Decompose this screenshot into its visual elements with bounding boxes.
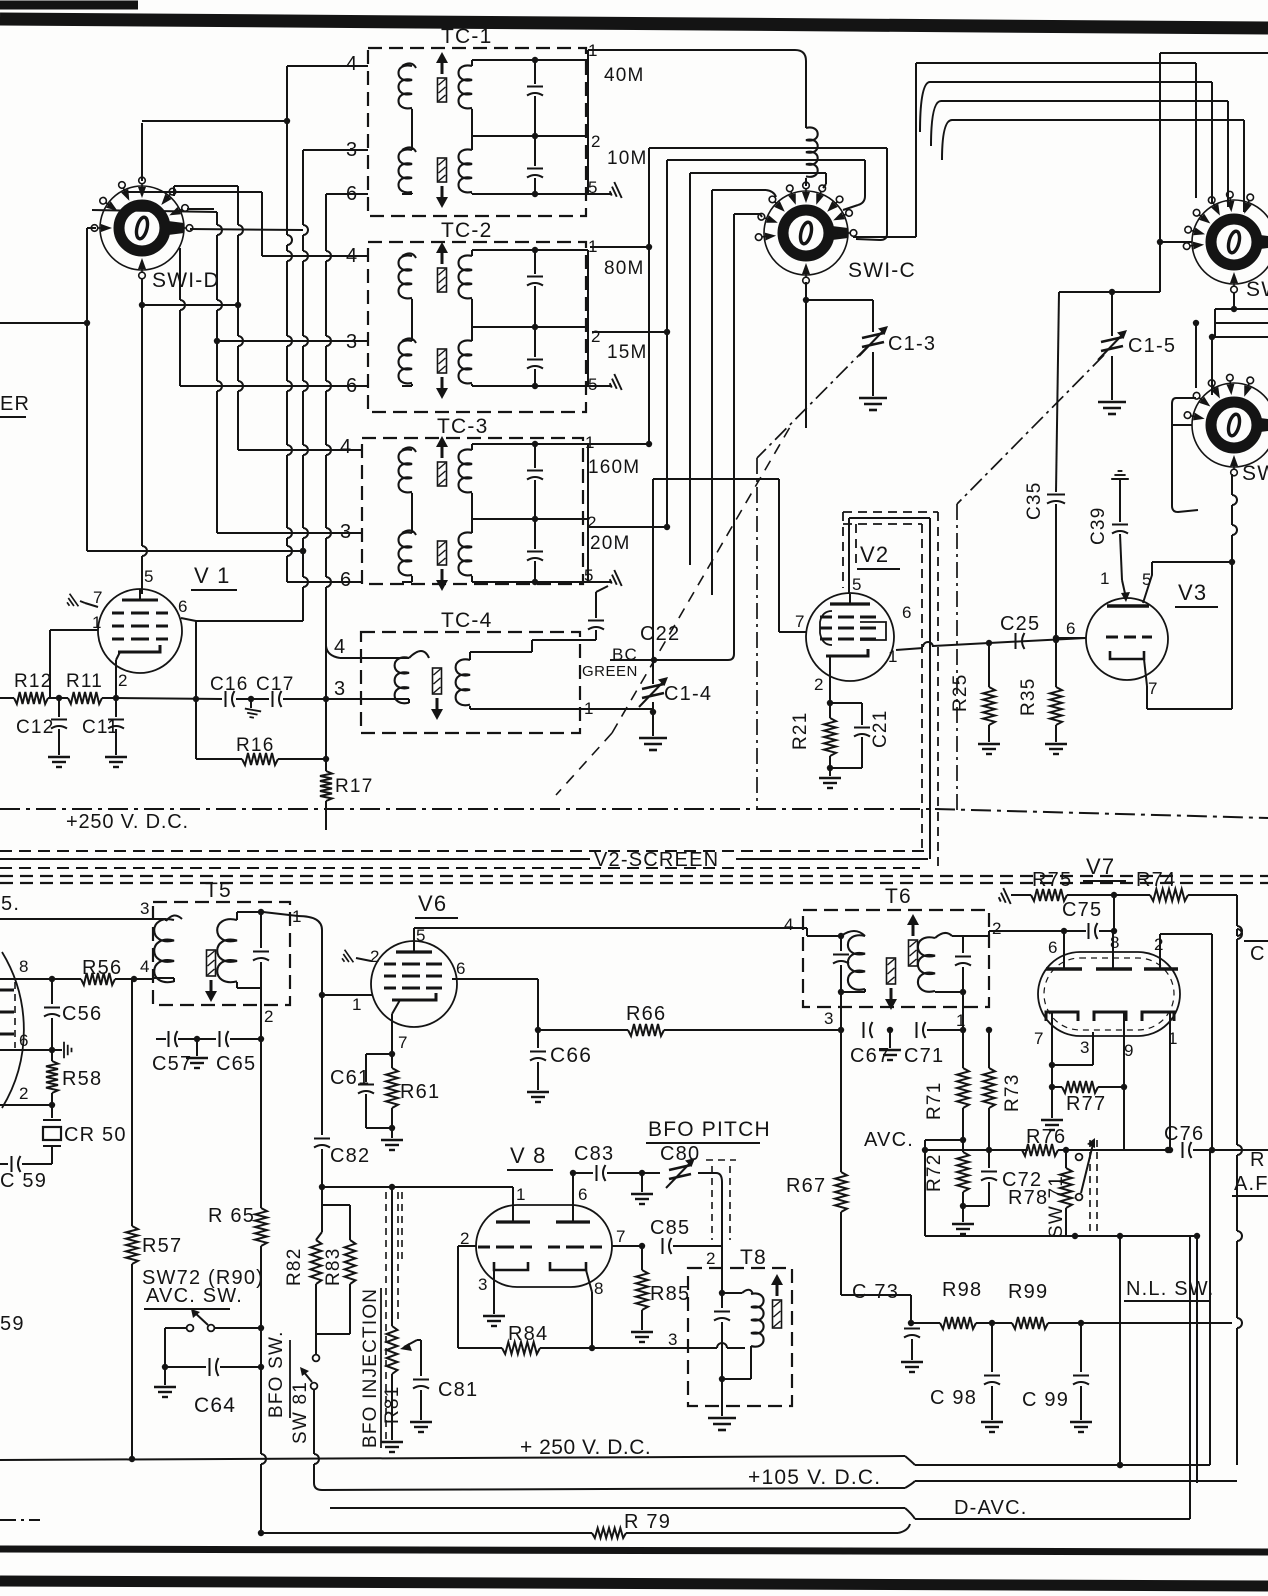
svg-text:V6: V6 (418, 891, 447, 916)
wire R75/R74 node down to C75 node (1113, 895, 1115, 931)
V1 plate (122, 599, 158, 602)
svg-text:8: 8 (594, 1279, 605, 1298)
resistor R71 (962, 1030, 964, 1068)
svg-text:3: 3 (140, 899, 151, 918)
tank pin5 ground (588, 581, 612, 583)
TC-3 pin 3 wire (217, 532, 362, 534)
T6 left coil (841, 931, 865, 936)
tank cap lower (534, 136, 536, 166)
svg-text:TC-3: TC-3 (437, 415, 488, 438)
resistor R75 row with ground (996, 888, 1011, 907)
capacitor C66 (537, 1030, 539, 1048)
wire SW1-D left terminal to x=87 (87, 227, 96, 229)
capacitor C81 (417, 1339, 421, 1341)
C1-5 ground (1098, 402, 1126, 414)
gang dashed line below TC-4 (556, 733, 612, 795)
wire V7 pin2 over to x=1212 (1160, 933, 1212, 935)
capacitor C71 (916, 1022, 918, 1038)
svg-text:9: 9 (1124, 1041, 1135, 1060)
wire x=1232 lower (1231, 562, 1233, 709)
wire T5 pin1 vertical x=322 (321, 930, 323, 1135)
wire R74 right down x=1237 (1236, 895, 1238, 926)
svg-text:2: 2 (992, 919, 1003, 938)
svg-text:+ 250 V. D.C.: + 250 V. D.C. (520, 1436, 651, 1459)
resistor R76 (1022, 1144, 1058, 1156)
wire TC-2 pin6 x=180 riser (179, 248, 181, 300)
V6 plate (396, 950, 432, 953)
wire sw1b left terminal (1160, 241, 1192, 243)
C99 ground (1070, 1422, 1092, 1432)
svg-text:40M: 40M (604, 65, 645, 86)
SW1-C harness row y=173 (690, 172, 826, 174)
svg-text:R11: R11 (66, 671, 103, 692)
V1 pin 7 lead and ground (85, 603, 98, 607)
TC-3 pin 4 wire (238, 449, 362, 451)
TC-1 pin 6 wire (326, 193, 368, 195)
capacitor C21 (830, 702, 862, 704)
resistor R74 (1150, 889, 1188, 901)
capacitor C73 (910, 1322, 912, 1324)
capacitor C83 (596, 1165, 598, 1181)
V6 cathode lead (392, 1000, 400, 1014)
svg-text:R81: R81 (382, 1386, 403, 1424)
D-AVC bus line (330, 1507, 905, 1509)
transformer TC-2 box (368, 242, 586, 412)
V2 cathode (826, 649, 868, 656)
wire x=916 riser (915, 63, 917, 237)
wire sw1b bottom to rows (1233, 292, 1235, 309)
svg-text:R56: R56 (82, 957, 122, 979)
svg-text:1: 1 (1100, 569, 1111, 588)
resistor R58 (51, 1050, 53, 1061)
riser x=925 (924, 1150, 926, 1236)
left tube grids (0, 989, 14, 992)
V2 cathode lead (829, 666, 831, 703)
tank right bus pins 1-2-5 (587, 444, 589, 582)
svg-text:160M: 160M (588, 457, 640, 478)
TC-4 pin4 wire into coil (340, 657, 409, 659)
capacitor C98 (991, 1323, 993, 1372)
V2 grid rows (820, 616, 832, 619)
svg-text:SW 71: SW 71 (1046, 1175, 1067, 1238)
capacitor C57 (156, 1038, 166, 1040)
svg-text:2: 2 (19, 1084, 30, 1103)
wire right corner x=1160 (1159, 53, 1161, 292)
tank pin5 wire (535, 581, 588, 583)
svg-text:C21: C21 (870, 710, 891, 748)
resistor R84 (458, 1347, 502, 1349)
TC-4 secondary top wire to pin 2 (469, 652, 471, 660)
TC-4 secondary coil (456, 659, 470, 705)
T8 slug (773, 1300, 782, 1328)
svg-text:GREEN: GREEN (582, 663, 638, 680)
wire x=826 down to 70deg terminal (825, 173, 827, 184)
capacitor C76 (1182, 1142, 1184, 1158)
svg-text:TC-4: TC-4 (441, 609, 492, 632)
wire C75 row (1099, 930, 1114, 932)
svg-text:6: 6 (19, 1031, 30, 1050)
svg-text:4: 4 (784, 915, 795, 934)
R25 ground (978, 744, 1000, 754)
svg-text:3: 3 (824, 1009, 835, 1028)
wire x=887 down to 25deg terminal (886, 148, 888, 234)
V1 pin 6 riser x=196 (195, 621, 197, 759)
variable capacitor C1-5 (1111, 292, 1113, 336)
T6 pin2 wire (963, 935, 989, 937)
wire x=865 down to 45deg terminal (864, 160, 866, 196)
transformer TC-1 box (368, 48, 586, 216)
wire to C1-3 (806, 299, 873, 301)
svg-text:C71: C71 (904, 1045, 944, 1067)
tank wire secondary top to pin1 bus (535, 59, 588, 61)
svg-text:SW: SW (1242, 462, 1268, 485)
svg-text:5: 5 (588, 375, 599, 394)
tank cap upper (534, 444, 536, 468)
wire T5 pin3 row (0, 918, 153, 920)
tank slug lower (438, 158, 447, 182)
svg-text:C17: C17 (256, 674, 294, 695)
svg-text:2: 2 (370, 947, 381, 966)
C67-C71 ground (887, 1027, 893, 1033)
svg-text:7: 7 (398, 1033, 409, 1052)
wire x=1232 from SW1-A down to V3 (1231, 474, 1233, 495)
svg-text:3: 3 (478, 1275, 489, 1294)
top border thick bar (0, 19, 1268, 28)
T6 pin1 wire down (962, 992, 964, 1030)
svg-text:C57: C57 (152, 1053, 192, 1075)
tank secondary coil lower (459, 340, 473, 383)
resistor R82 (311, 1240, 322, 1284)
V6 pin2 ground (356, 958, 371, 961)
svg-text:10M: 10M (607, 148, 648, 169)
capacitor C16 (225, 691, 227, 707)
svg-text:TC-2: TC-2 (441, 219, 492, 242)
tank slug upper (438, 462, 447, 486)
svg-text:2: 2 (706, 1249, 717, 1268)
svg-text:7: 7 (1034, 1029, 1045, 1048)
row y=1236 (925, 1235, 1197, 1237)
V3 grid (1106, 636, 1118, 639)
resistor R66 (538, 1029, 628, 1031)
V8 cathodes (494, 1262, 528, 1270)
wire V7 pin1 lead joins C76 row (1167, 1147, 1173, 1153)
inductor above SW1-C (806, 127, 818, 176)
capacitor C85 (662, 1238, 664, 1254)
svg-text:CR 50: CR 50 (64, 1124, 127, 1146)
svg-text:C 99: C 99 (1022, 1389, 1069, 1411)
svg-text:C83: C83 (574, 1143, 614, 1165)
TC-3 pin 6 wire (287, 581, 362, 583)
resistor R72 (962, 1108, 964, 1152)
V8 pin3 lead to ground (493, 1270, 495, 1314)
svg-text:V 1: V 1 (194, 563, 231, 588)
resistor R98 (911, 1322, 940, 1324)
SW1-C left row to 160deg terminal (734, 213, 760, 215)
svg-text:T8: T8 (740, 1246, 767, 1269)
harness vertical x=690 (689, 173, 691, 565)
wire harness y=121 (142, 120, 287, 122)
svg-text:R77: R77 (1066, 1093, 1106, 1115)
SW72 right contact wire (215, 1327, 261, 1329)
svg-text:R17: R17 (335, 776, 373, 797)
rotary switch SW1-C (764, 191, 848, 275)
capacitor C65 (197, 1038, 216, 1040)
svg-text:5: 5 (852, 575, 863, 594)
SW1-C bottom wire (805, 282, 807, 428)
tank primary coil upper (402, 63, 416, 68)
V7 top leads (1063, 933, 1065, 969)
capacitor C12 (58, 698, 60, 717)
tank cap upper (534, 250, 536, 274)
tube V8 envelope (476, 1205, 612, 1287)
R79 line (261, 1532, 592, 1534)
svg-text:+250 V. D.C.: +250 V. D.C. (66, 811, 189, 833)
screen shield dashed left (842, 512, 844, 588)
tank pin5 wire (535, 193, 588, 195)
C73 ground (901, 1362, 923, 1372)
wire T5 pin2 down / R65 (260, 1039, 262, 1208)
harness vertical x=734 to C1-4 (733, 214, 735, 654)
V7 pin3 link (1052, 1064, 1093, 1066)
dash-dot fragment bottom left (0, 1519, 40, 1521)
screen wire top run (849, 517, 930, 519)
wire R67 bottom to R98 row (841, 1294, 911, 1296)
svg-text:1: 1 (585, 433, 596, 452)
tube V2 envelope (806, 593, 894, 681)
C81 ground (410, 1422, 432, 1432)
svg-text:R67: R67 (786, 1175, 826, 1197)
capacitor C22 (595, 630, 597, 640)
tank primary coil lower (402, 338, 416, 343)
svg-text:BFO INJECTION: BFO INJECTION (360, 1288, 381, 1448)
svg-text:R58: R58 (62, 1068, 102, 1090)
wire TC-2 pin1 to harness (590, 246, 649, 248)
svg-text:C85: C85 (650, 1217, 690, 1239)
resistor R25 (988, 643, 990, 687)
svg-text:R98: R98 (942, 1279, 982, 1301)
svg-text:4: 4 (340, 436, 352, 458)
R85 ground (631, 1332, 653, 1342)
svg-text:R 65: R 65 (208, 1205, 255, 1227)
gang dash-dot diagonal C1-5 (957, 355, 1104, 504)
svg-text:R71: R71 (924, 1082, 945, 1120)
tank cap upper (534, 60, 536, 84)
R21 ground (829, 768, 831, 776)
tank right bus pins 1-2-5 (587, 250, 589, 386)
V6 pin1 wire (322, 994, 373, 996)
wire y=551 horizontal (87, 550, 303, 552)
capacitor C59 (22, 1163, 52, 1165)
svg-text:BC: BC (612, 645, 638, 664)
capacitor C61 (366, 1053, 392, 1055)
svg-text:2: 2 (264, 1007, 275, 1026)
wire x=1120 NL vertical (1119, 1236, 1121, 1465)
V2-SCREEN solid screen wire (0, 858, 590, 860)
wire V3 plate to switch (1152, 561, 1232, 563)
bottom border bar 1 (0, 1549, 1268, 1552)
screen wire down right side (929, 518, 931, 859)
resistor R67 (840, 1030, 842, 1172)
T5 secondary cap (260, 912, 262, 948)
gang dashed line through C1-4 (612, 427, 790, 733)
variable capacitor C1-4 (642, 684, 664, 698)
svg-text:BFO PITCH: BFO PITCH (648, 1118, 771, 1141)
svg-text:6: 6 (1066, 619, 1077, 638)
wire y=53 to edge (1160, 52, 1268, 54)
TC-4 secondary bottom wire pin 1 (469, 706, 471, 709)
harness row y=82 (920, 82, 930, 132)
resistor R17 (325, 699, 327, 771)
wire x=262 riser (261, 192, 263, 256)
transformer T8 box (688, 1268, 792, 1406)
tank pin5 ground (588, 193, 612, 195)
svg-text:ER: ER (0, 393, 30, 415)
R61 ground (391, 1128, 393, 1138)
harness vertical x=649 (648, 148, 650, 447)
svg-text:C1-3: C1-3 (888, 333, 936, 355)
V8 pin7 wire (612, 1245, 642, 1247)
+105 hop right segment (905, 1481, 915, 1488)
wire x=1197 vertical (1196, 1236, 1198, 1483)
svg-text:6: 6 (1048, 938, 1059, 957)
rotary switch SW1-B top right (1192, 200, 1268, 284)
svg-text:4: 4 (140, 957, 151, 976)
svg-text:R83: R83 (323, 1248, 344, 1286)
svg-text:R25: R25 (950, 674, 971, 712)
svg-text:2: 2 (118, 671, 129, 690)
svg-text:2: 2 (591, 327, 602, 346)
svg-text:R85: R85 (650, 1283, 690, 1305)
svg-text:C64: C64 (194, 1394, 236, 1417)
svg-text:20M: 20M (590, 533, 631, 554)
svg-text:R99: R99 (1008, 1281, 1048, 1303)
capacitor C75 (1088, 923, 1090, 939)
variable capacitor C1-3 (872, 300, 874, 332)
svg-text:7: 7 (1148, 679, 1159, 698)
C64 ground (164, 1367, 166, 1385)
tank slug upper (438, 268, 447, 292)
capacitor C35 line (1056, 292, 1059, 492)
svg-text:N.L. SW.: N.L. SW. (1126, 1278, 1215, 1300)
V2 pin 7 wire (778, 479, 780, 632)
svg-text:R21: R21 (790, 712, 811, 750)
R77 ground (1051, 1087, 1053, 1118)
wire x=1210 riser (1209, 1150, 1211, 1465)
wire R56 to T5 pin4 (134, 978, 153, 980)
tank wire secondary top to pin1 bus (535, 249, 588, 251)
svg-text:V2: V2 (860, 542, 889, 567)
SW1-C feed coil from TC-1 pin1 (588, 49, 795, 51)
harness vertical x=712 (711, 190, 713, 595)
svg-text:2: 2 (1154, 935, 1165, 954)
V8 pin8 lead (586, 1270, 592, 1292)
svg-text:C61: C61 (330, 1067, 370, 1089)
T8 ground lead (721, 1379, 723, 1416)
wire TC-2 pin3 link y=212 (92, 210, 217, 212)
SW1-C harness row y=148 (649, 147, 887, 149)
V3 plate pin5 lead (1143, 562, 1152, 603)
wire x=217 vertical (216, 212, 218, 225)
svg-text:AVC.: AVC. (864, 1129, 914, 1151)
TC-2 pin 4 wire (262, 255, 368, 257)
svg-text:6: 6 (578, 1185, 589, 1204)
svg-text:1: 1 (92, 613, 103, 632)
svg-text:C75: C75 (1062, 899, 1102, 921)
wire y=292 row (1059, 291, 1160, 293)
svg-text:R82: R82 (284, 1248, 305, 1286)
wire C80 down to T8 (716, 1173, 722, 1182)
wire C1-4 to V2 grid upper run (653, 478, 779, 480)
tank secondary coil upper (459, 65, 473, 108)
R76 row (925, 1149, 1028, 1151)
resistor R78 (1065, 1150, 1067, 1168)
tank cap lower (534, 519, 536, 549)
V2 plate (830, 602, 870, 605)
svg-text:R75: R75 (1032, 869, 1072, 891)
dash-dot section boundary line (0, 808, 935, 810)
svg-text:C65: C65 (216, 1053, 256, 1075)
V1 pin 1 lead (50, 629, 98, 631)
R79 right hook (898, 1524, 910, 1533)
svg-text:SWI-C: SWI-C (848, 259, 916, 282)
svg-text:59: 59 (0, 1313, 25, 1335)
transformer TC-4 box (361, 632, 580, 733)
tank slug upper (438, 78, 447, 102)
resistor R77 (1062, 1081, 1098, 1093)
svg-text:A.F.: A.F. (1234, 1173, 1268, 1195)
T5 slug (207, 950, 216, 976)
svg-text:V 8: V 8 (510, 1143, 547, 1168)
resistor R61 (386, 1068, 398, 1108)
wire SW72/R65 column down to R79 (260, 1328, 262, 1367)
T8 cap (721, 1293, 723, 1308)
capacitor C17 (251, 698, 269, 700)
svg-text:7: 7 (616, 1227, 627, 1246)
svg-text:C16: C16 (210, 674, 248, 695)
svg-text:C 73: C 73 (852, 1281, 899, 1303)
tank slug lower (438, 541, 447, 565)
R81 ground (381, 1442, 403, 1452)
capacitor C67 (863, 1022, 865, 1038)
svg-text:C56: C56 (62, 1003, 102, 1025)
resistor R83 (322, 1204, 350, 1206)
V8 grid row (322, 1186, 513, 1188)
svg-text:R78: R78 (1008, 1187, 1048, 1209)
V2-SCREEN shield dashed line lower (0, 867, 920, 869)
svg-text:4: 4 (334, 636, 346, 658)
svg-text:+105 V. D.C.: +105 V. D.C. (748, 1466, 881, 1489)
svg-text:R74: R74 (1136, 869, 1176, 891)
TC-2 pin 6 wire (180, 385, 368, 387)
left edge tube V5 partial envelope (2, 952, 24, 1108)
harness row y=120 (942, 120, 952, 160)
gang dash-dot vertical x=957 (956, 504, 958, 812)
transformer T6 box (803, 910, 989, 1007)
T5 pin 2 wire (260, 988, 262, 1039)
svg-text:6: 6 (902, 603, 913, 622)
AVC line to +250 bus (131, 1264, 133, 1459)
C98 ground (981, 1422, 1003, 1432)
SW81 wire down to +105 (313, 1390, 315, 1454)
rotary switch SW1-A right (1192, 383, 1268, 467)
wire x=303 vertical (302, 150, 304, 225)
wire sw1b term risers (1195, 63, 1197, 198)
svg-text:6: 6 (456, 959, 467, 978)
T8 coil (722, 1292, 742, 1294)
svg-text:V3: V3 (1178, 580, 1207, 605)
svg-text:3: 3 (334, 678, 346, 700)
svg-text:C11: C11 (82, 717, 119, 738)
